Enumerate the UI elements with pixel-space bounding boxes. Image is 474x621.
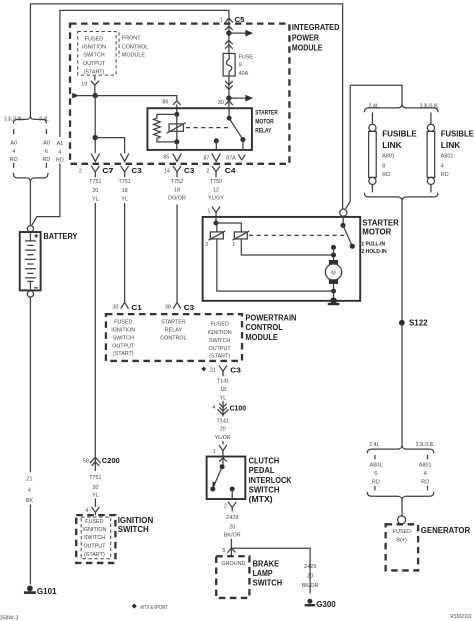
connector C3 pin 14 lower half (164, 166, 194, 177)
wire feed to fusible links (350, 85, 402, 105)
wire arrow feed into junction (72, 93, 95, 98)
svg-text:BRAKE: BRAKE (253, 559, 280, 568)
connector C1 pin 30 into PCM (121, 302, 143, 311)
label GROUND (221, 561, 245, 567)
svg-text:2.4L: 2.4L (368, 103, 379, 109)
svg-text:40A: 40A (239, 71, 249, 77)
svg-text:LINK: LINK (441, 141, 461, 150)
label STARTER MOTOR (362, 219, 399, 237)
svg-text:STARTER: STARTER (161, 319, 186, 325)
svg-text:T751: T751 (89, 475, 101, 481)
wire A1 battery to C5 feed (32, 10, 229, 225)
svg-text:C3: C3 (184, 303, 194, 312)
svg-text:T141: T141 (217, 378, 229, 384)
svg-text:CLUTCH: CLUTCH (249, 457, 280, 466)
brace upper left (engine split) (13, 116, 46, 124)
wire T751 18 YL down to PCM C1 (124, 203, 126, 302)
label pin 86 (162, 99, 168, 105)
svg-text:C4: C4 (225, 166, 237, 175)
label FUSED IGNITION SWITCH OUTPUT (START) (82, 36, 106, 75)
connector C3 pin 3 upper half (120, 153, 129, 161)
svg-text:T752: T752 (171, 179, 183, 185)
svg-text:A801: A801 (370, 462, 383, 468)
svg-text:30: 30 (112, 305, 118, 311)
wire branch to C3 pin 3 (95, 138, 124, 154)
svg-text:G300: G300 (316, 600, 336, 609)
svg-text:RD: RD (10, 157, 18, 163)
svg-text:SWITCH: SWITCH (209, 338, 230, 344)
svg-text:20: 20 (220, 427, 226, 433)
svg-text:RELAY: RELAY (165, 328, 183, 334)
battery plus sign (34, 234, 38, 238)
connector pin 2 clutch switch lower (224, 502, 236, 511)
node clutch switch common (220, 464, 225, 469)
svg-text:T751: T751 (118, 179, 130, 185)
node solenoid feed junction (214, 217, 242, 232)
wire battery positive cable to starter (A0) (30, 4, 342, 209)
svg-text:(START): (START) (113, 351, 134, 357)
svg-text:C3: C3 (131, 166, 141, 175)
wire to brake lamp switch ground junction (230, 539, 232, 556)
label circuit T750 12 YL/GY (208, 179, 224, 202)
svg-text:CONTROL: CONTROL (160, 336, 186, 342)
node motor feed contact (331, 245, 336, 260)
svg-text:SWITCH: SWITCH (253, 578, 283, 587)
connector pin 1 starter motor (207, 207, 220, 217)
splice S122 (399, 319, 428, 328)
svg-text:A0: A0 (10, 140, 17, 146)
svg-text:(MTX): (MTX) (249, 495, 273, 504)
svg-text:LAMP: LAMP (253, 569, 274, 578)
svg-text:FUSE: FUSE (239, 55, 254, 61)
svg-text:20: 20 (92, 188, 98, 194)
svg-text:Z1: Z1 (26, 476, 32, 482)
connector pin 87A not connected (238, 154, 245, 160)
svg-text:DG/OR: DG/OR (168, 196, 186, 202)
svg-text:T751: T751 (89, 179, 101, 185)
svg-text:87: 87 (203, 155, 209, 161)
battery minus sign (34, 287, 38, 289)
svg-text:6: 6 (45, 149, 48, 155)
svg-text:FUSED: FUSED (114, 319, 132, 325)
node relay coil bottom (174, 139, 179, 150)
svg-text:RD: RD (43, 157, 51, 163)
svg-text:(START): (START) (209, 354, 230, 360)
svg-text:20: 20 (307, 574, 313, 580)
label FUSED B(+) (393, 529, 411, 544)
svg-text:18: 18 (174, 187, 180, 193)
svg-text:12: 12 (213, 187, 219, 193)
fuse 9 40A (223, 53, 235, 76)
label circuit T751 18 YL (118, 179, 130, 203)
svg-text:86: 86 (162, 99, 168, 105)
svg-text:Z429: Z429 (226, 515, 238, 521)
svg-text:4: 4 (28, 487, 31, 493)
svg-text:8: 8 (382, 164, 385, 170)
svg-text:(START): (START) (84, 552, 105, 558)
label circuit A0 6 RD (43, 140, 51, 163)
label 3.3L/3.8L (4, 116, 23, 122)
battery body (20, 232, 41, 290)
wire T752 down to PCM C3 (176, 204, 178, 302)
generator dashed box (386, 524, 419, 570)
ground G300 (305, 599, 336, 610)
label RS502102 (450, 614, 471, 620)
svg-text:INTEGRATED: INTEGRATED (292, 23, 340, 32)
wire brace to battery (29, 182, 31, 226)
motor M armature (325, 260, 341, 284)
svg-text:3: 3 (109, 169, 112, 175)
starter terminal stud (340, 209, 347, 216)
svg-text:2: 2 (79, 169, 82, 175)
starter motor box (203, 217, 361, 301)
node relay contact 87 (214, 138, 219, 150)
svg-text:1: 1 (220, 17, 223, 23)
label circuit Z429 20 BK/OR right (302, 564, 319, 589)
label circuit T752 18 DG/OR (168, 179, 186, 202)
label pin 85 (163, 155, 169, 161)
wire to generator terminal (401, 500, 403, 516)
clutch switch entry chevron (219, 458, 227, 467)
label 2.4L (368, 103, 379, 109)
solenoid winding 2 hold-in (205, 231, 225, 248)
svg-text:RD: RD (372, 479, 380, 485)
label FUSED IGNITION SWITCH OUTPUT (START) col1 (111, 319, 135, 357)
svg-text:5: 5 (222, 548, 225, 554)
label circuit T141 20 YL/OR (215, 419, 231, 442)
brace fusible links top (364, 105, 438, 113)
connector pin 19 of FCM (91, 76, 99, 96)
front control module inner dashed box (fused ignition switch output) (78, 32, 116, 76)
svg-text:OUTPUT: OUTPUT (83, 544, 106, 550)
connector C7 pin 2 upper half (91, 153, 100, 161)
svg-text:A801: A801 (441, 154, 454, 160)
fusible link left (369, 112, 377, 192)
label FRONT CONTROL MODULE (122, 36, 148, 59)
label 3.3L/3.8L (420, 103, 439, 109)
brace generator top (367, 446, 433, 454)
starter case ground symbol (328, 297, 340, 304)
connector C5 (225, 15, 245, 33)
svg-text:20: 20 (229, 525, 235, 531)
svg-text:IGNITION: IGNITION (111, 328, 135, 334)
wire junction down to C7 (94, 96, 96, 154)
label FUSED IGNITION SWITCH OUTPUT (START) col3 (208, 322, 232, 360)
wire hold-in winding to case ground (217, 239, 334, 291)
label CLUTCH PEDAL INTERLOCK SWITCH (MTX) (249, 457, 292, 505)
svg-text:YL/GY: YL/GY (208, 196, 224, 202)
svg-text:YL: YL (92, 197, 99, 203)
label circuit Z1 4 BK (26, 476, 34, 504)
wire down to ignition switch (94, 498, 96, 507)
svg-text:OUTPUT: OUTPUT (209, 346, 232, 352)
svg-text:058W-3: 058W-3 (0, 615, 18, 621)
brace lower left (merge to battery) (13, 173, 48, 182)
node junction to C3 branch (93, 135, 98, 140)
label STARTER MOTOR RELAY (255, 110, 278, 135)
node clutch switch contact pin 2 (230, 487, 235, 500)
svg-text:30: 30 (218, 100, 224, 106)
svg-text:85: 85 (163, 155, 169, 161)
label 2.4L (39, 116, 49, 122)
svg-text:FUSED: FUSED (85, 519, 103, 525)
label pin 1 of C5 (220, 17, 223, 23)
svg-text:BK/OR: BK/OR (302, 583, 319, 589)
svg-text:SWITCH: SWITCH (83, 53, 104, 59)
label circuit Z429 20 BK/OR (224, 515, 241, 539)
label circuit A801 6 RD (370, 462, 383, 485)
svg-text:RD: RD (382, 172, 390, 178)
label pin 38 C3 (165, 305, 171, 311)
svg-text:PEDAL: PEDAL (249, 466, 275, 475)
svg-text:SWITCH: SWITCH (118, 525, 149, 534)
label 2.4L generator (369, 442, 380, 448)
connector C3 pin 21 from PCM (219, 365, 241, 376)
label POWERTRAIN CONTROL MODULE (245, 313, 296, 342)
battery negative terminal (27, 291, 33, 297)
svg-text:1: 1 (207, 208, 210, 214)
svg-text:INTERLOCK: INTERLOCK (249, 476, 292, 485)
connector pin 30 of relay (225, 98, 233, 108)
svg-text:3.3L/3.8L: 3.3L/3.8L (4, 116, 23, 122)
svg-text:IGNITION: IGNITION (82, 45, 106, 51)
svg-text:Z429: Z429 (304, 564, 316, 570)
wire T751 YL down to C200 (94, 203, 96, 456)
svg-text:C200: C200 (102, 456, 120, 465)
label GENERATOR (421, 526, 471, 535)
svg-text:RS502102: RS502102 (450, 614, 471, 620)
svg-text:MODULE: MODULE (292, 44, 323, 53)
label 3.3L/3.8L generator (416, 442, 435, 448)
label pin 87 (203, 155, 209, 161)
svg-text:2.4L: 2.4L (369, 442, 380, 448)
svg-text:YL: YL (220, 396, 227, 402)
svg-text:(START): (START) (84, 69, 105, 75)
wire motor to case ground (331, 284, 336, 301)
starter switch contact from stud (341, 216, 346, 228)
clutch pedal interlock switch box (207, 457, 246, 500)
generator B+ terminal (398, 516, 406, 524)
svg-text:FUSED: FUSED (393, 529, 411, 535)
label IGNITION SWITCH (118, 516, 154, 534)
svg-text:RD: RD (421, 479, 429, 485)
wire battery negative to ground Z1 (29, 297, 31, 584)
svg-text:POWERTRAIN: POWERTRAIN (245, 313, 296, 322)
label 058W-3 (0, 615, 18, 621)
svg-text:58: 58 (83, 459, 89, 465)
svg-text:POWER: POWER (292, 33, 319, 42)
svg-text:STARTER: STARTER (255, 110, 278, 117)
wire fusible link feed diagonal (346, 85, 351, 209)
svg-text:2.4L: 2.4L (39, 116, 49, 122)
svg-text:IGNITION: IGNITION (118, 516, 154, 525)
wire relay armature link (176, 114, 178, 141)
label circuit A801 4 RD (419, 462, 432, 485)
svg-text:20: 20 (92, 485, 98, 491)
svg-text:18: 18 (122, 188, 128, 194)
mtx variant diamond marker (201, 367, 206, 372)
wire links to S122 and generator (401, 200, 403, 446)
connector C3 pin 38 into PCM (173, 302, 194, 311)
connector C4 pin 2 lower half (206, 166, 236, 177)
starter switch blade (343, 225, 355, 248)
svg-text:A0: A0 (43, 140, 50, 146)
fusible link right (427, 112, 435, 192)
svg-text:6: 6 (374, 471, 377, 477)
svg-text:FUSIBLE: FUSIBLE (382, 130, 417, 139)
svg-text:A801: A801 (419, 462, 432, 468)
svg-text:4: 4 (424, 471, 427, 477)
connector C7 pin 2 lower half (79, 166, 114, 177)
svg-text:BATTERY: BATTERY (43, 231, 77, 241)
dashed mechanical link to contact (249, 234, 346, 236)
svg-text:YL: YL (92, 493, 99, 499)
wire branch to G300 (231, 548, 310, 593)
svg-text:SWITCH: SWITCH (84, 535, 105, 541)
relay coil winding (154, 114, 177, 141)
battery positive terminal (27, 226, 33, 232)
wire stub marks A0 right column (45, 129, 47, 168)
svg-text:1 PULL-IN: 1 PULL-IN (361, 241, 385, 247)
label circuit T751 20 YL (89, 475, 101, 499)
node fuse output junction with arrow out (226, 95, 253, 102)
svg-text:C3: C3 (230, 366, 241, 375)
svg-text:87A: 87A (226, 155, 236, 161)
wire pull-in winding to motor feed (241, 239, 333, 255)
svg-text:RD: RD (441, 172, 449, 178)
wire stub marks generator right (427, 455, 429, 491)
svg-text:1: 1 (232, 242, 235, 248)
label pin 30 C1 (112, 305, 118, 311)
svg-text:4: 4 (441, 164, 444, 170)
connector pin 5 brake lamp switch (222, 548, 235, 554)
wire fuse to pin 30 with connector chevrons (225, 76, 233, 98)
connector C3 pin 3 lower half (109, 166, 142, 177)
svg-text:IGNITION: IGNITION (82, 527, 106, 533)
svg-text:IGNITION: IGNITION (208, 330, 232, 336)
solenoid winding 1 pull-in (232, 231, 249, 248)
pin 19 label (81, 81, 87, 87)
svg-text:C100: C100 (230, 403, 246, 412)
connector C200 (83, 456, 120, 471)
front control module divider dashes (118, 32, 120, 57)
svg-text:4: 4 (12, 149, 15, 155)
relay K1 starter motor relay box (147, 108, 252, 150)
integrated power module dashed box (70, 24, 289, 164)
wire stub marks A0 left column (13, 129, 15, 168)
label circuit A0 4 RD (10, 140, 18, 163)
svg-text:M: M (331, 271, 336, 277)
svg-text:RD: RD (56, 157, 64, 163)
svg-text:T141: T141 (217, 419, 229, 425)
connector pin 4 ignition switch (85, 507, 99, 515)
svg-text:BK/OR: BK/OR (224, 533, 241, 539)
svg-text:RELAY: RELAY (255, 128, 272, 135)
connector pin 86 of relay (173, 101, 181, 115)
svg-text:FUSIBLE: FUSIBLE (441, 130, 474, 139)
svg-text:STARTER: STARTER (362, 219, 399, 228)
svg-text:C5: C5 (235, 15, 246, 24)
label circuit T751 20 YL (89, 179, 101, 203)
svg-text:FRONT: FRONT (122, 36, 141, 42)
svg-text:19: 19 (81, 81, 87, 87)
svg-text:MTX EXPORT: MTX EXPORT (140, 605, 168, 611)
svg-text:MOTOR: MOTOR (255, 119, 274, 126)
svg-text:2 HOLD-IN: 2 HOLD-IN (361, 249, 386, 255)
svg-text:2: 2 (206, 169, 209, 175)
wire C5 to fuse with connector chevrons (225, 33, 233, 53)
label FUSIBLE LINK A801 8 RD left (382, 130, 417, 179)
svg-text:SWITCH: SWITCH (113, 336, 134, 342)
svg-text:21: 21 (210, 368, 216, 374)
svg-text:T750: T750 (210, 179, 222, 185)
mtx export marker (132, 603, 169, 610)
ground G101 (24, 586, 57, 597)
wire junction to relay pin 86 (95, 96, 177, 101)
svg-text:C3: C3 (184, 166, 194, 175)
svg-text:MODULE: MODULE (122, 53, 145, 59)
svg-text:YL: YL (121, 197, 128, 203)
connector pin 85 of relay (173, 153, 182, 161)
svg-text:SWITCH: SWITCH (249, 486, 280, 495)
svg-text:A801: A801 (382, 154, 395, 160)
svg-text:2: 2 (205, 242, 208, 248)
node junction pin19/feed (93, 93, 98, 98)
ignition switch dashed box (76, 515, 115, 563)
powertrain control module dashed box (106, 314, 242, 361)
connector C100 (212, 401, 246, 417)
label circuit A1 4 RD (56, 141, 64, 164)
label BRAKE LAMP SWITCH (253, 559, 283, 587)
label 2 HOLD-IN (361, 249, 386, 255)
svg-text:1: 1 (213, 449, 216, 455)
ignition switch inner dashed box (81, 517, 111, 559)
svg-text:3.3L/3.8L: 3.3L/3.8L (420, 103, 439, 109)
label pin 30 (218, 100, 224, 106)
wire stub marks generator left (374, 455, 376, 491)
node C5 junction with arrow out (226, 30, 253, 37)
svg-text:OUTPUT: OUTPUT (83, 61, 106, 67)
svg-text:14: 14 (164, 169, 170, 175)
clutch switch blade (210, 467, 222, 492)
svg-text:18: 18 (220, 387, 226, 393)
label FUSIBLE LINK A801 4 RD right (441, 130, 474, 179)
label INTEGRATED POWER MODULE (292, 23, 340, 53)
svg-text:YL/OR: YL/OR (215, 435, 231, 441)
svg-text:FUSED: FUSED (85, 36, 103, 42)
relay switch common from pin 30 (227, 108, 232, 120)
svg-text:38: 38 (165, 305, 171, 311)
label pin 87A (226, 155, 236, 161)
svg-text:FUSED: FUSED (210, 322, 228, 328)
label FUSED IGNITION SWITCH OUTPUT (START) (82, 519, 106, 558)
node relay coil top (174, 112, 179, 117)
svg-text:OUTPUT: OUTPUT (112, 343, 135, 349)
svg-text:MOTOR: MOTOR (362, 228, 391, 237)
svg-text:B(+): B(+) (396, 537, 407, 543)
svg-text:GROUND: GROUND (221, 561, 245, 567)
svg-text:9: 9 (239, 63, 242, 69)
label FUSE 9 40A (239, 55, 254, 77)
svg-text:CONTROL: CONTROL (245, 323, 283, 332)
label pin 21 C3 (210, 368, 216, 374)
svg-text:GENERATOR: GENERATOR (421, 526, 471, 535)
svg-text:CONTROL: CONTROL (122, 45, 148, 51)
brace fusible links bottom (364, 193, 438, 201)
connector pin 1 clutch switch (213, 441, 227, 457)
svg-text:C1: C1 (131, 303, 142, 312)
svg-text:4: 4 (85, 508, 88, 514)
